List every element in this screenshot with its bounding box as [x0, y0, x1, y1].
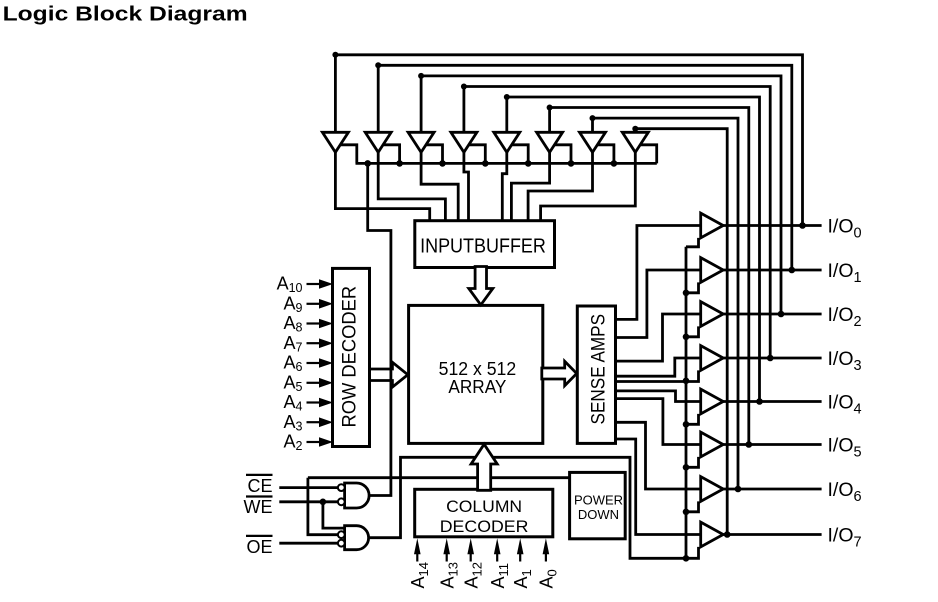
svg-text:A10: A10 — [277, 274, 303, 296]
node enable junction 4 — [683, 421, 690, 428]
svg-text:I/O3: I/O3 — [828, 348, 862, 374]
wire address A5 lead — [307, 382, 323, 384]
svg-text:I/O1: I/O1 — [828, 260, 862, 286]
arrowhead A2 — [319, 437, 333, 447]
wire address A0 lead — [545, 552, 547, 562]
buffer output 6 — [701, 477, 724, 502]
svg-text:A2: A2 — [284, 432, 303, 454]
wire sense amp output 4 — [616, 391, 703, 402]
wire address A6 lead — [307, 362, 323, 364]
wire input buffer 6 output — [528, 152, 592, 222]
wire input buffer 4 enable tap — [511, 145, 528, 164]
arrow column decoder to array — [471, 444, 497, 490]
node top corner dot 1 — [375, 62, 381, 68]
wire address A9 lead — [307, 303, 323, 305]
arrowhead A10 — [319, 279, 333, 289]
buffer output 3 — [701, 346, 724, 371]
node bus junction 5 — [568, 160, 575, 167]
wire output buffer 2 enable stub — [686, 326, 699, 336]
buffer output 2 — [701, 302, 724, 327]
wire input buffer 0 output — [335, 152, 429, 222]
buffer output 1 — [701, 258, 724, 283]
overline WE — [246, 495, 273, 497]
svg-text:DOWN: DOWN — [578, 507, 619, 522]
arrowhead A0 — [543, 538, 550, 554]
wire I/O6 top feed — [593, 118, 739, 489]
wire I/O5 line — [721, 443, 821, 446]
svg-text:A0: A0 — [537, 569, 560, 588]
svg-text:ROW DECODER: ROW DECODER — [339, 286, 361, 428]
wire output buffer 7 enable stub — [686, 547, 699, 558]
wire output-enable line — [685, 247, 688, 560]
wire address A11 lead — [496, 552, 498, 562]
svg-text:I/O2: I/O2 — [828, 304, 862, 330]
wire I/O3 line — [721, 357, 821, 360]
node I/O6 junction — [735, 486, 742, 493]
svg-text:CE: CE — [247, 476, 272, 496]
wire write gate output to bus — [368, 163, 391, 495]
node I/O5 junction — [746, 441, 753, 448]
buffer output 0 — [701, 213, 724, 238]
svg-text:I/O4: I/O4 — [828, 392, 862, 418]
wire OE input — [279, 542, 338, 545]
wire I/O6 line — [721, 488, 821, 491]
bubble write gate WE — [338, 498, 345, 505]
node top corner dot 0 — [332, 52, 338, 58]
wire I/O4 line — [721, 400, 821, 403]
wire address A13 lead — [446, 552, 448, 562]
bubble read gate OE — [338, 540, 345, 547]
node top corner dot 4 — [504, 94, 510, 100]
buffer input 0 — [322, 132, 348, 152]
wire sense amp output 7 — [616, 439, 703, 535]
wire I/O3 top feed — [464, 87, 770, 359]
svg-text:A5: A5 — [284, 372, 303, 394]
wire input buffer 7 enable tap — [639, 145, 656, 164]
svg-text:INPUTBUFFER: INPUTBUFFER — [420, 236, 546, 258]
buffer input 4 — [494, 132, 520, 152]
arrow inputbuffer to array — [469, 267, 493, 305]
buffer output 5 — [701, 432, 724, 457]
block POWER DOWN box — [570, 472, 626, 538]
svg-text:OE: OE — [246, 537, 272, 557]
wire CE input — [279, 486, 338, 489]
node bus junction 3 — [482, 160, 489, 167]
wire I/O2 top feed — [421, 76, 781, 314]
buffer input 7 — [622, 132, 648, 152]
arrowhead A13 — [443, 538, 450, 554]
wire I/O7 line — [721, 533, 821, 536]
wire output buffer 3 enable stub — [616, 370, 699, 381]
node enable junction 2 — [683, 334, 690, 341]
block SENSE AMPS box — [577, 306, 615, 443]
arrowhead A11 — [494, 538, 501, 554]
wire input buffer 5 output — [511, 152, 549, 222]
svg-text:I/O6: I/O6 — [828, 479, 862, 505]
wire WE input — [279, 500, 338, 503]
block ROW DECODER box — [333, 268, 370, 446]
svg-text:A6: A6 — [284, 353, 303, 375]
wire write-enable bus — [356, 162, 657, 165]
wire input buffer 5 enable tap — [554, 145, 571, 164]
node I/O7 junction — [724, 531, 731, 538]
wire I/O7 top feed — [635, 129, 727, 535]
wire CE to power down — [308, 476, 570, 479]
overline CE — [246, 474, 273, 476]
svg-text:I/O0: I/O0 — [828, 216, 862, 242]
wire sense amp output 3 — [616, 358, 703, 376]
gate read (WE,CE,OE) — [345, 526, 369, 550]
wire sense amp output 2 — [616, 314, 703, 361]
wire address A4 lead — [307, 401, 323, 403]
wire input buffer 1 output — [378, 152, 445, 222]
node WE junction — [320, 499, 327, 506]
node I/O3 junction — [767, 355, 774, 362]
wire address A7 lead — [307, 342, 323, 344]
svg-text:SENSE AMPS: SENSE AMPS — [588, 314, 610, 425]
wire input buffer 2 output — [421, 152, 458, 222]
wire I/O5 top feed — [550, 108, 749, 445]
buffer input 6 — [580, 132, 606, 152]
wire address A10 lead — [307, 283, 323, 285]
arrowhead A5 — [319, 378, 333, 388]
svg-text:POWER: POWER — [574, 492, 623, 507]
wire output buffer 5 enable stub — [686, 457, 699, 467]
wire address A3 lead — [307, 421, 323, 423]
wire input buffer 7 output — [541, 152, 636, 222]
wire sense amp output 0 — [616, 226, 703, 320]
node I/O1 junction — [789, 267, 796, 274]
wire output buffer 4 enable stub — [686, 414, 699, 424]
block COLUMN DECODER box — [415, 489, 553, 537]
svg-text:DECODER: DECODER — [440, 517, 529, 536]
wire address A8 lead — [307, 322, 323, 324]
gate write (CE,WE nand) — [345, 483, 370, 508]
wire input buffer 0 enable tap — [339, 145, 356, 164]
svg-text:A1: A1 — [511, 569, 534, 588]
wire I/O1 line — [721, 269, 821, 272]
svg-text:A12: A12 — [461, 562, 484, 588]
bubble read gate CE — [338, 531, 345, 538]
arrowhead A8 — [319, 319, 333, 329]
wire I/O2 line — [721, 313, 821, 316]
wire CE branch vertical — [308, 478, 338, 535]
block 512x512 ARRAY box — [409, 305, 543, 443]
wire output buffer 6 enable stub — [686, 501, 699, 511]
wire output buffer 0 enable stub — [686, 238, 699, 247]
node I/O2 junction — [778, 311, 785, 318]
wire I/O0 top feed — [335, 55, 802, 226]
node top corner dot 3 — [461, 84, 467, 90]
wire sense amp output 1 — [616, 270, 703, 338]
wire address A14 lead — [416, 552, 418, 562]
node bus junction 2 — [439, 160, 446, 167]
block INPUTBUFFER box — [415, 221, 555, 268]
svg-text:Logic Block Diagram: Logic Block Diagram — [3, 3, 248, 25]
svg-text:A11: A11 — [488, 563, 511, 589]
node bus junction 6 — [611, 160, 618, 167]
node enable junction 1 — [683, 290, 690, 297]
svg-text:A3: A3 — [284, 412, 303, 434]
wire address A2 lead — [307, 441, 323, 443]
arrowhead A7 — [319, 338, 333, 348]
svg-text:A14: A14 — [408, 562, 431, 588]
arrowhead A6 — [319, 358, 333, 368]
wire input buffer 1 enable tap — [382, 145, 399, 164]
wire I/O4 top feed — [507, 97, 760, 402]
wire WE branch to read gate — [323, 502, 346, 528]
wire input buffer 3 output — [464, 152, 469, 222]
buffer input 1 — [365, 132, 391, 152]
node top corner dot 6 — [590, 115, 596, 121]
wire I/O1 top feed — [378, 65, 792, 270]
node enable junction 6 — [683, 509, 690, 516]
svg-text:COLUMN: COLUMN — [446, 497, 522, 516]
wire address A12 lead — [470, 552, 472, 562]
wire read gate output to enable line — [369, 457, 687, 558]
svg-text:A8: A8 — [284, 313, 303, 335]
node top corner dot 7 — [632, 126, 638, 132]
svg-text:A7: A7 — [284, 333, 303, 355]
node enable junction 7 — [683, 555, 690, 562]
buffer input 5 — [537, 132, 563, 152]
arrowhead A1 — [517, 538, 524, 554]
buffer input 2 — [408, 132, 434, 152]
wire output buffer 1 enable stub — [686, 282, 699, 292]
arrowhead A3 — [319, 417, 333, 427]
arrow array to sense amps — [542, 361, 577, 385]
svg-text:ARRAY: ARRAY — [448, 377, 506, 397]
wire sense amp output 5 — [616, 399, 703, 445]
wire sense amp output 6 — [616, 422, 703, 489]
arrowhead A12 — [467, 538, 474, 554]
node bus junction 4 — [525, 160, 532, 167]
wire input buffer 6 enable tap — [597, 145, 614, 164]
node I/O4 junction — [756, 398, 763, 405]
node enable junction 5 — [683, 464, 690, 471]
svg-text:I/O5: I/O5 — [828, 435, 862, 461]
svg-text:A4: A4 — [284, 392, 303, 414]
arrow row-decoder to array — [369, 362, 408, 387]
buffer output 4 — [701, 389, 724, 414]
wire input buffer 3 enable tap — [468, 145, 485, 164]
bubble write gate CE — [338, 484, 345, 491]
arrowhead A14 — [414, 538, 421, 554]
wire input buffer 2 enable tap — [425, 145, 442, 164]
arrowhead A4 — [319, 398, 333, 408]
node top corner dot 2 — [418, 73, 424, 79]
overline OE — [246, 535, 273, 537]
buffer output 7 — [701, 522, 724, 547]
node top corner dot 5 — [547, 105, 553, 111]
wire address A1 lead — [519, 552, 521, 562]
node bus junction 1 — [396, 160, 403, 167]
svg-text:A13: A13 — [437, 562, 460, 588]
node bus write junction — [364, 160, 371, 167]
arrowhead A9 — [319, 299, 333, 309]
node I/O0 junction — [799, 222, 806, 229]
buffer input 3 — [451, 132, 477, 152]
wire input buffer 4 output — [502, 152, 507, 222]
svg-text:I/O7: I/O7 — [828, 525, 862, 551]
svg-text:A9: A9 — [284, 293, 303, 315]
svg-text:WE: WE — [244, 497, 273, 517]
wire I/O0 line — [721, 224, 821, 227]
node enable junction 3 — [683, 378, 690, 385]
